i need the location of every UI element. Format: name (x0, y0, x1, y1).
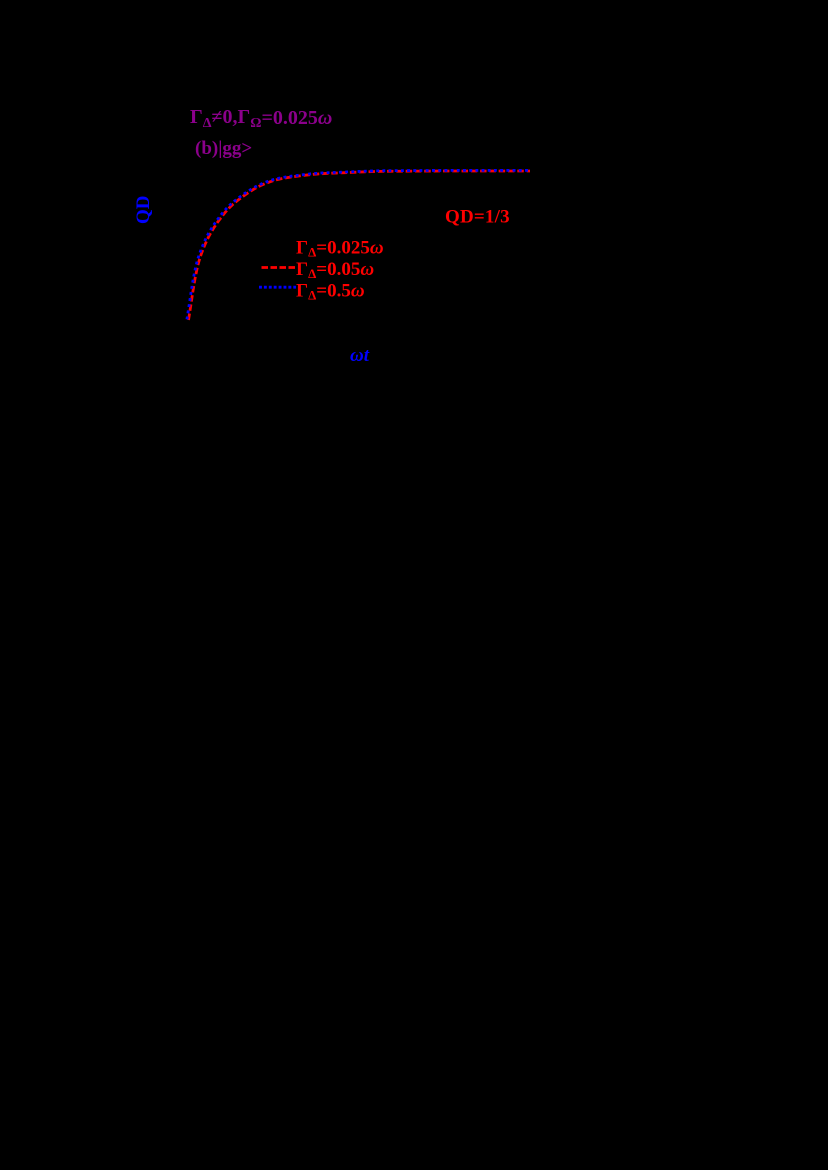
svg-text:QD=1/3: QD=1/3 (445, 207, 510, 228)
svg-text:ωt: ωt (350, 345, 370, 366)
legend row 3 dot sample (259, 286, 296, 289)
svg-text:ΓΔ=0.025ω: ΓΔ=0.025ω (296, 238, 384, 260)
curve: blue dotted (Gamma=0.5w), slightly faster (187, 170, 529, 319)
svg-text:(b)|gg>: (b)|gg> (195, 138, 252, 159)
legend row 2 dash sample (262, 266, 296, 269)
svg-text:ΓΔ=0.05ω: ΓΔ=0.05ω (296, 259, 374, 281)
chart figure (0, 0, 828, 420)
curve: red dashed (Gamma=0.05w) (189, 171, 531, 320)
svg-text:QD: QD (133, 196, 154, 225)
svg-text:ΓΔ=0.5ω: ΓΔ=0.5ω (296, 281, 365, 303)
svg-text:ΓΔ≠0,ΓΩ=0.025ω: ΓΔ≠0,ΓΩ=0.025ω (190, 106, 332, 131)
